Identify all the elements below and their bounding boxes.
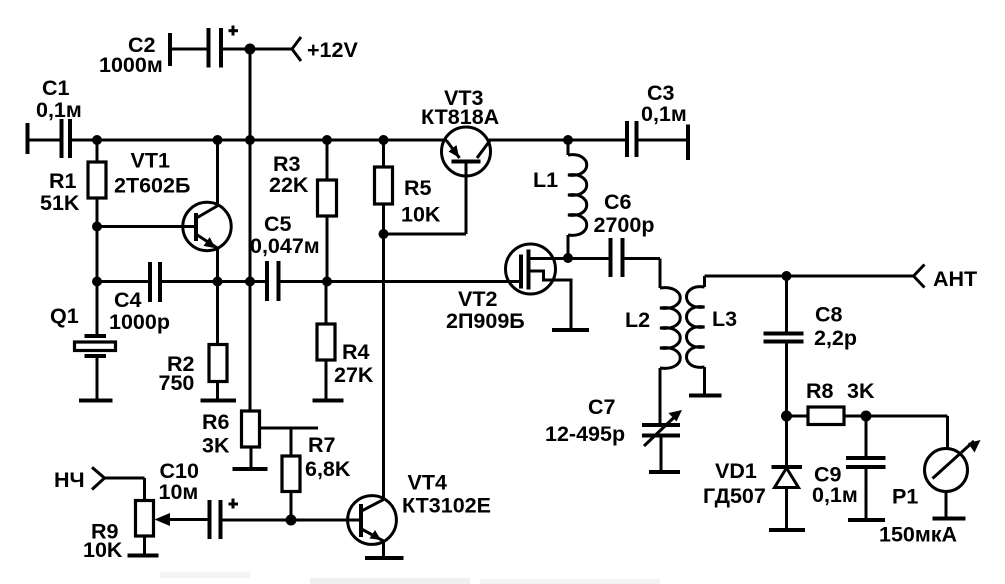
- resistor R4: [313, 282, 374, 401]
- capacitor C5: [250, 212, 320, 301]
- svg-text:КТ3102Е: КТ3102Е: [402, 494, 491, 518]
- svg-text:750: 750: [159, 371, 195, 395]
- node: C1/R1 junction: [92, 135, 102, 145]
- bottom scan artifact: [160, 572, 660, 584]
- svg-text:27K: 27K: [334, 363, 374, 387]
- terminal +12V: [250, 37, 358, 62]
- node: R1 bottom / VT1 base: [92, 222, 102, 232]
- wire: antenna line: [705, 275, 914, 278]
- wire: x=251 column bus1->bus2: [249, 140, 252, 282]
- svg-text:C1: C1: [42, 76, 70, 100]
- capacitor C1: [28, 76, 98, 158]
- svg-text:L3: L3: [712, 307, 737, 331]
- svg-text:R6: R6: [202, 410, 230, 434]
- svg-text:22K: 22K: [269, 173, 309, 197]
- transistor VT3: [421, 86, 499, 176]
- capacitor C6: [568, 190, 660, 288]
- svg-text:0,1м: 0,1м: [812, 483, 858, 507]
- svg-text:1000p: 1000p: [109, 310, 170, 334]
- capacitor C3: [627, 81, 688, 160]
- svg-text:C4: C4: [114, 288, 142, 312]
- node: bus1 / L1 / C3: [563, 135, 573, 145]
- svg-text:0,1м: 0,1м: [36, 98, 82, 122]
- potentiometer R9: [83, 501, 210, 563]
- transistor VT1: [114, 140, 231, 282]
- node: R8/C9/P1: [861, 411, 872, 422]
- resistor R6: [202, 410, 318, 469]
- svg-text:Q1: Q1: [50, 304, 79, 328]
- node: VT1 collector on bus1: [213, 135, 223, 145]
- inductor L3: [687, 276, 738, 396]
- svg-text:VD1: VD1: [715, 459, 757, 483]
- svg-text:150мкА: 150мкА: [879, 523, 957, 547]
- wire: to P1: [866, 415, 948, 418]
- svg-text:VT1: VT1: [131, 149, 170, 173]
- meter P1: [879, 440, 981, 547]
- wire: bus2 (gate line): [97, 280, 521, 283]
- capacitor C9: [812, 416, 886, 520]
- svg-text:1000м: 1000м: [99, 53, 163, 77]
- resistor R1: [40, 140, 106, 226]
- svg-text:51K: 51K: [40, 191, 80, 215]
- svg-text:+12V: +12V: [307, 38, 358, 62]
- node: R7 / C10 / VT4 base: [286, 515, 297, 526]
- svg-text:R1: R1: [49, 169, 77, 193]
- wire: +12V column down: [249, 49, 252, 140]
- node: drain / L1 / C6: [563, 253, 573, 263]
- svg-text:L1: L1: [533, 168, 558, 192]
- svg-text:C6: C6: [604, 190, 632, 214]
- capacitor C8: [764, 276, 858, 416]
- svg-text:КТ818А: КТ818А: [421, 105, 499, 129]
- wire: long column to VT4 collector: [382, 234, 385, 500]
- svg-text:VT4: VT4: [408, 471, 447, 495]
- svg-text:ГД507: ГД507: [703, 484, 766, 508]
- svg-text:2700p: 2700p: [594, 213, 655, 237]
- svg-text:НЧ: НЧ: [54, 468, 85, 492]
- svg-text:10м: 10м: [159, 480, 199, 504]
- node: C8 junction: [782, 271, 792, 281]
- resistor R2: [159, 282, 237, 401]
- svg-text:R7: R7: [308, 433, 336, 457]
- svg-text:L2: L2: [625, 308, 650, 332]
- svg-text:C5: C5: [264, 212, 292, 236]
- svg-text:VT2: VT2: [458, 287, 497, 311]
- capacitor C2: [99, 26, 250, 78]
- svg-text:10K: 10K: [83, 538, 123, 562]
- svg-text:АНТ: АНТ: [933, 267, 977, 291]
- wire: to VT4 base: [291, 519, 361, 522]
- svg-text:C7: C7: [588, 395, 616, 419]
- wire: to VT3 base: [384, 233, 467, 236]
- diode VD1: [703, 416, 805, 530]
- inductor L1: [533, 140, 587, 258]
- svg-text:R5: R5: [404, 176, 432, 200]
- svg-text:12-495p: 12-495p: [545, 422, 625, 446]
- svg-text:10K: 10K: [401, 203, 441, 227]
- crystal Q1: [50, 282, 116, 401]
- wire: base wire: [97, 225, 196, 228]
- node: VD1/R8: [781, 411, 792, 422]
- svg-text:R4: R4: [342, 340, 370, 364]
- svg-text:2П909Б: 2П909Б: [446, 309, 525, 333]
- wire: +12V rail (bus1): [97, 139, 688, 142]
- inductor L2: [625, 288, 680, 425]
- svg-text:0,1м: 0,1м: [641, 102, 687, 126]
- transistor VT4: [348, 471, 491, 559]
- node: bus1 x=251: [245, 135, 255, 145]
- svg-text:3K: 3K: [847, 379, 875, 403]
- transistor VT2 (MOSFET): [446, 244, 589, 333]
- resistor R7: [282, 428, 351, 520]
- wire: down to bus2: [96, 227, 99, 282]
- terminal АНТ: [914, 265, 978, 292]
- svg-text:C8: C8: [815, 303, 843, 327]
- capacitor C10: [159, 459, 292, 539]
- capacitor C4: [109, 262, 170, 334]
- resistor R3: [269, 140, 337, 282]
- terminal НЧ: [54, 467, 145, 500]
- svg-text:3K: 3K: [202, 434, 230, 458]
- resistor R8: [787, 379, 875, 425]
- svg-text:R8: R8: [806, 379, 834, 403]
- variable capacitor C7: [545, 395, 682, 472]
- svg-text:6,8K: 6,8K: [305, 457, 351, 481]
- node: C2/+12V junction: [245, 44, 256, 55]
- resistor R5: [375, 140, 441, 234]
- node: R5 bottom / VT3 base: [379, 229, 389, 239]
- svg-text:2Т602Б: 2Т602Б: [114, 174, 190, 198]
- svg-text:P1: P1: [892, 485, 918, 509]
- svg-text:2,2p: 2,2p: [814, 326, 857, 350]
- svg-text:0,047м: 0,047м: [250, 234, 320, 258]
